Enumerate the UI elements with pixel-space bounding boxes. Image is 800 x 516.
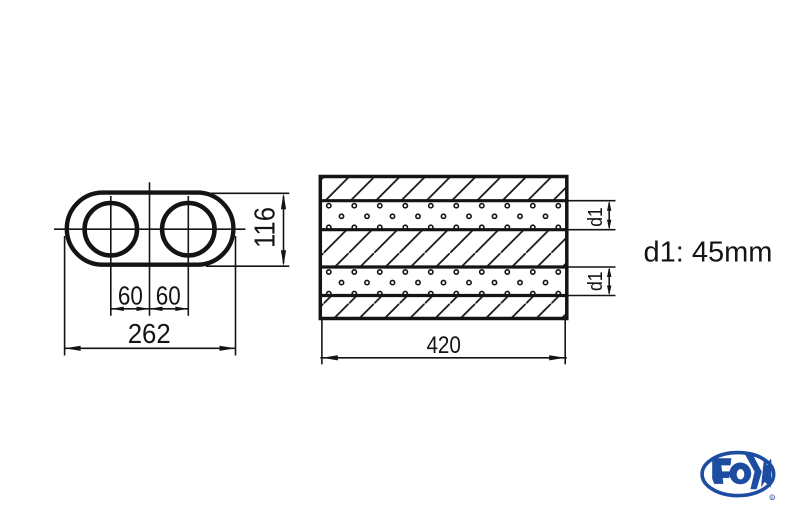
svg-text:116: 116 [250, 207, 282, 248]
svg-text:60: 60 [118, 281, 143, 311]
svg-text:d1: d1 [584, 207, 607, 227]
svg-text:420: 420 [426, 332, 461, 359]
svg-text:262: 262 [128, 318, 171, 349]
svg-text:d1: d1 [584, 271, 607, 291]
svg-text:R: R [771, 496, 774, 500]
svg-text:60: 60 [156, 281, 181, 311]
svg-text:d1: 45mm: d1: 45mm [644, 236, 773, 268]
